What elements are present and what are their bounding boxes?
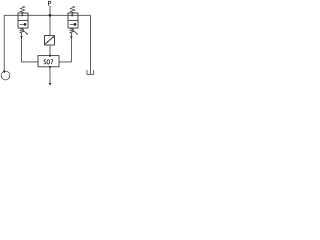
pump M1 flow triangle [3, 71, 6, 74]
V2 adjustment arrow [72, 30, 77, 34]
V1 top-cell port tick [21, 13, 23, 15]
V1 bottom-cell ball [24, 23, 27, 26]
wire: left branch down to pump [3, 15, 5, 71]
V2 top-cell seat dot [71, 14, 73, 16]
wire: right branch down to tank [90, 15, 92, 74]
V1 top-cell seat dot [21, 14, 23, 16]
tank T1 symbol [87, 70, 94, 75]
V1 adjustment arrow [22, 30, 27, 34]
label P (drawn as paths) [48, 1, 51, 6]
V1 top spring [20, 6, 25, 13]
relief valve V1 body [18, 13, 28, 28]
wire: main pressure bus [4, 14, 90, 16]
V1 bottom spring [20, 28, 24, 33]
V2 top spring [70, 6, 75, 13]
wire: S07 bottom drain [49, 67, 51, 83]
V2 bottom spring [70, 28, 74, 33]
V1 drain flow arrowhead [20, 36, 22, 39]
V2 top-cell port tick [71, 13, 73, 15]
wire: P supply drop [49, 6, 51, 15]
orifice Z1 box [45, 36, 55, 45]
node: S07 bottom junction [49, 66, 51, 68]
node: S07 top junction [49, 55, 51, 57]
label S07 (drawn as paths) [44, 60, 53, 64]
V1 bottom-cell seat line [20, 23, 24, 25]
node: bus / P junction [49, 14, 52, 17]
V2 drain flow arrowhead [70, 36, 72, 39]
pump M1 circle [1, 71, 10, 80]
wire: V2 drain down and to S07 right [59, 33, 71, 62]
V2 bottom-cell seat line [70, 23, 74, 25]
S07 drain arrowhead [49, 83, 52, 86]
orifice Z1 diagonal [45, 36, 54, 44]
wire: V1 drain down and to S07 left [22, 33, 39, 62]
manifold S07 box [38, 56, 59, 67]
V2 bottom-cell ball [74, 23, 77, 26]
wire: orifice to S07 box [49, 45, 51, 56]
relief valve V2 body [68, 13, 78, 28]
orifice Z1 arrowhead [52, 36, 54, 38]
wire: center drop from bus to orifice [49, 15, 51, 35]
